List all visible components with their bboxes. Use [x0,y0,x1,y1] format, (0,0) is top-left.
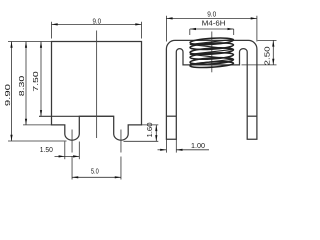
dim 1.60 [142,124,159,126]
svg-text:1.50: 1.50 [40,145,53,154]
dim 9.0 (side top) [166,16,257,42]
svg-text:M4-6H: M4-6H [202,19,226,28]
svg-text:9.90: 9.90 [3,84,12,106]
leg ticks [166,115,176,117]
dim M4-6H [190,29,234,35]
thread coil (two zigzags forming braid) [190,37,234,69]
svg-text:9.0: 9.0 [207,9,216,18]
center line [96,31,98,139]
dim 2.50 [242,40,277,65]
9.90 dim [11,42,13,141]
7.50 dim [40,42,42,117]
dimension 9.0 (front top) [52,22,142,39]
svg-text:5.0: 5.0 [91,167,99,176]
svg-text:7.50: 7.50 [31,71,40,91]
body outline [52,42,142,141]
svg-text:1.60: 1.60 [145,122,154,137]
dim 1.50 [64,142,66,160]
dim 1.00 [158,139,210,152]
svg-text:1.00: 1.00 [191,141,205,150]
svg-text:8.30: 8.30 [17,76,26,97]
dim 5.0 [72,176,121,178]
bottom edge line A [39,115,114,117]
svg-text:9.0: 9.0 [92,16,101,25]
8.30 dim [25,42,27,125]
left dims: top extension [8,41,52,43]
thread center line [211,32,213,73]
arc center lines (dashed) [71,130,73,180]
svg-text:2.50: 2.50 [262,46,271,65]
